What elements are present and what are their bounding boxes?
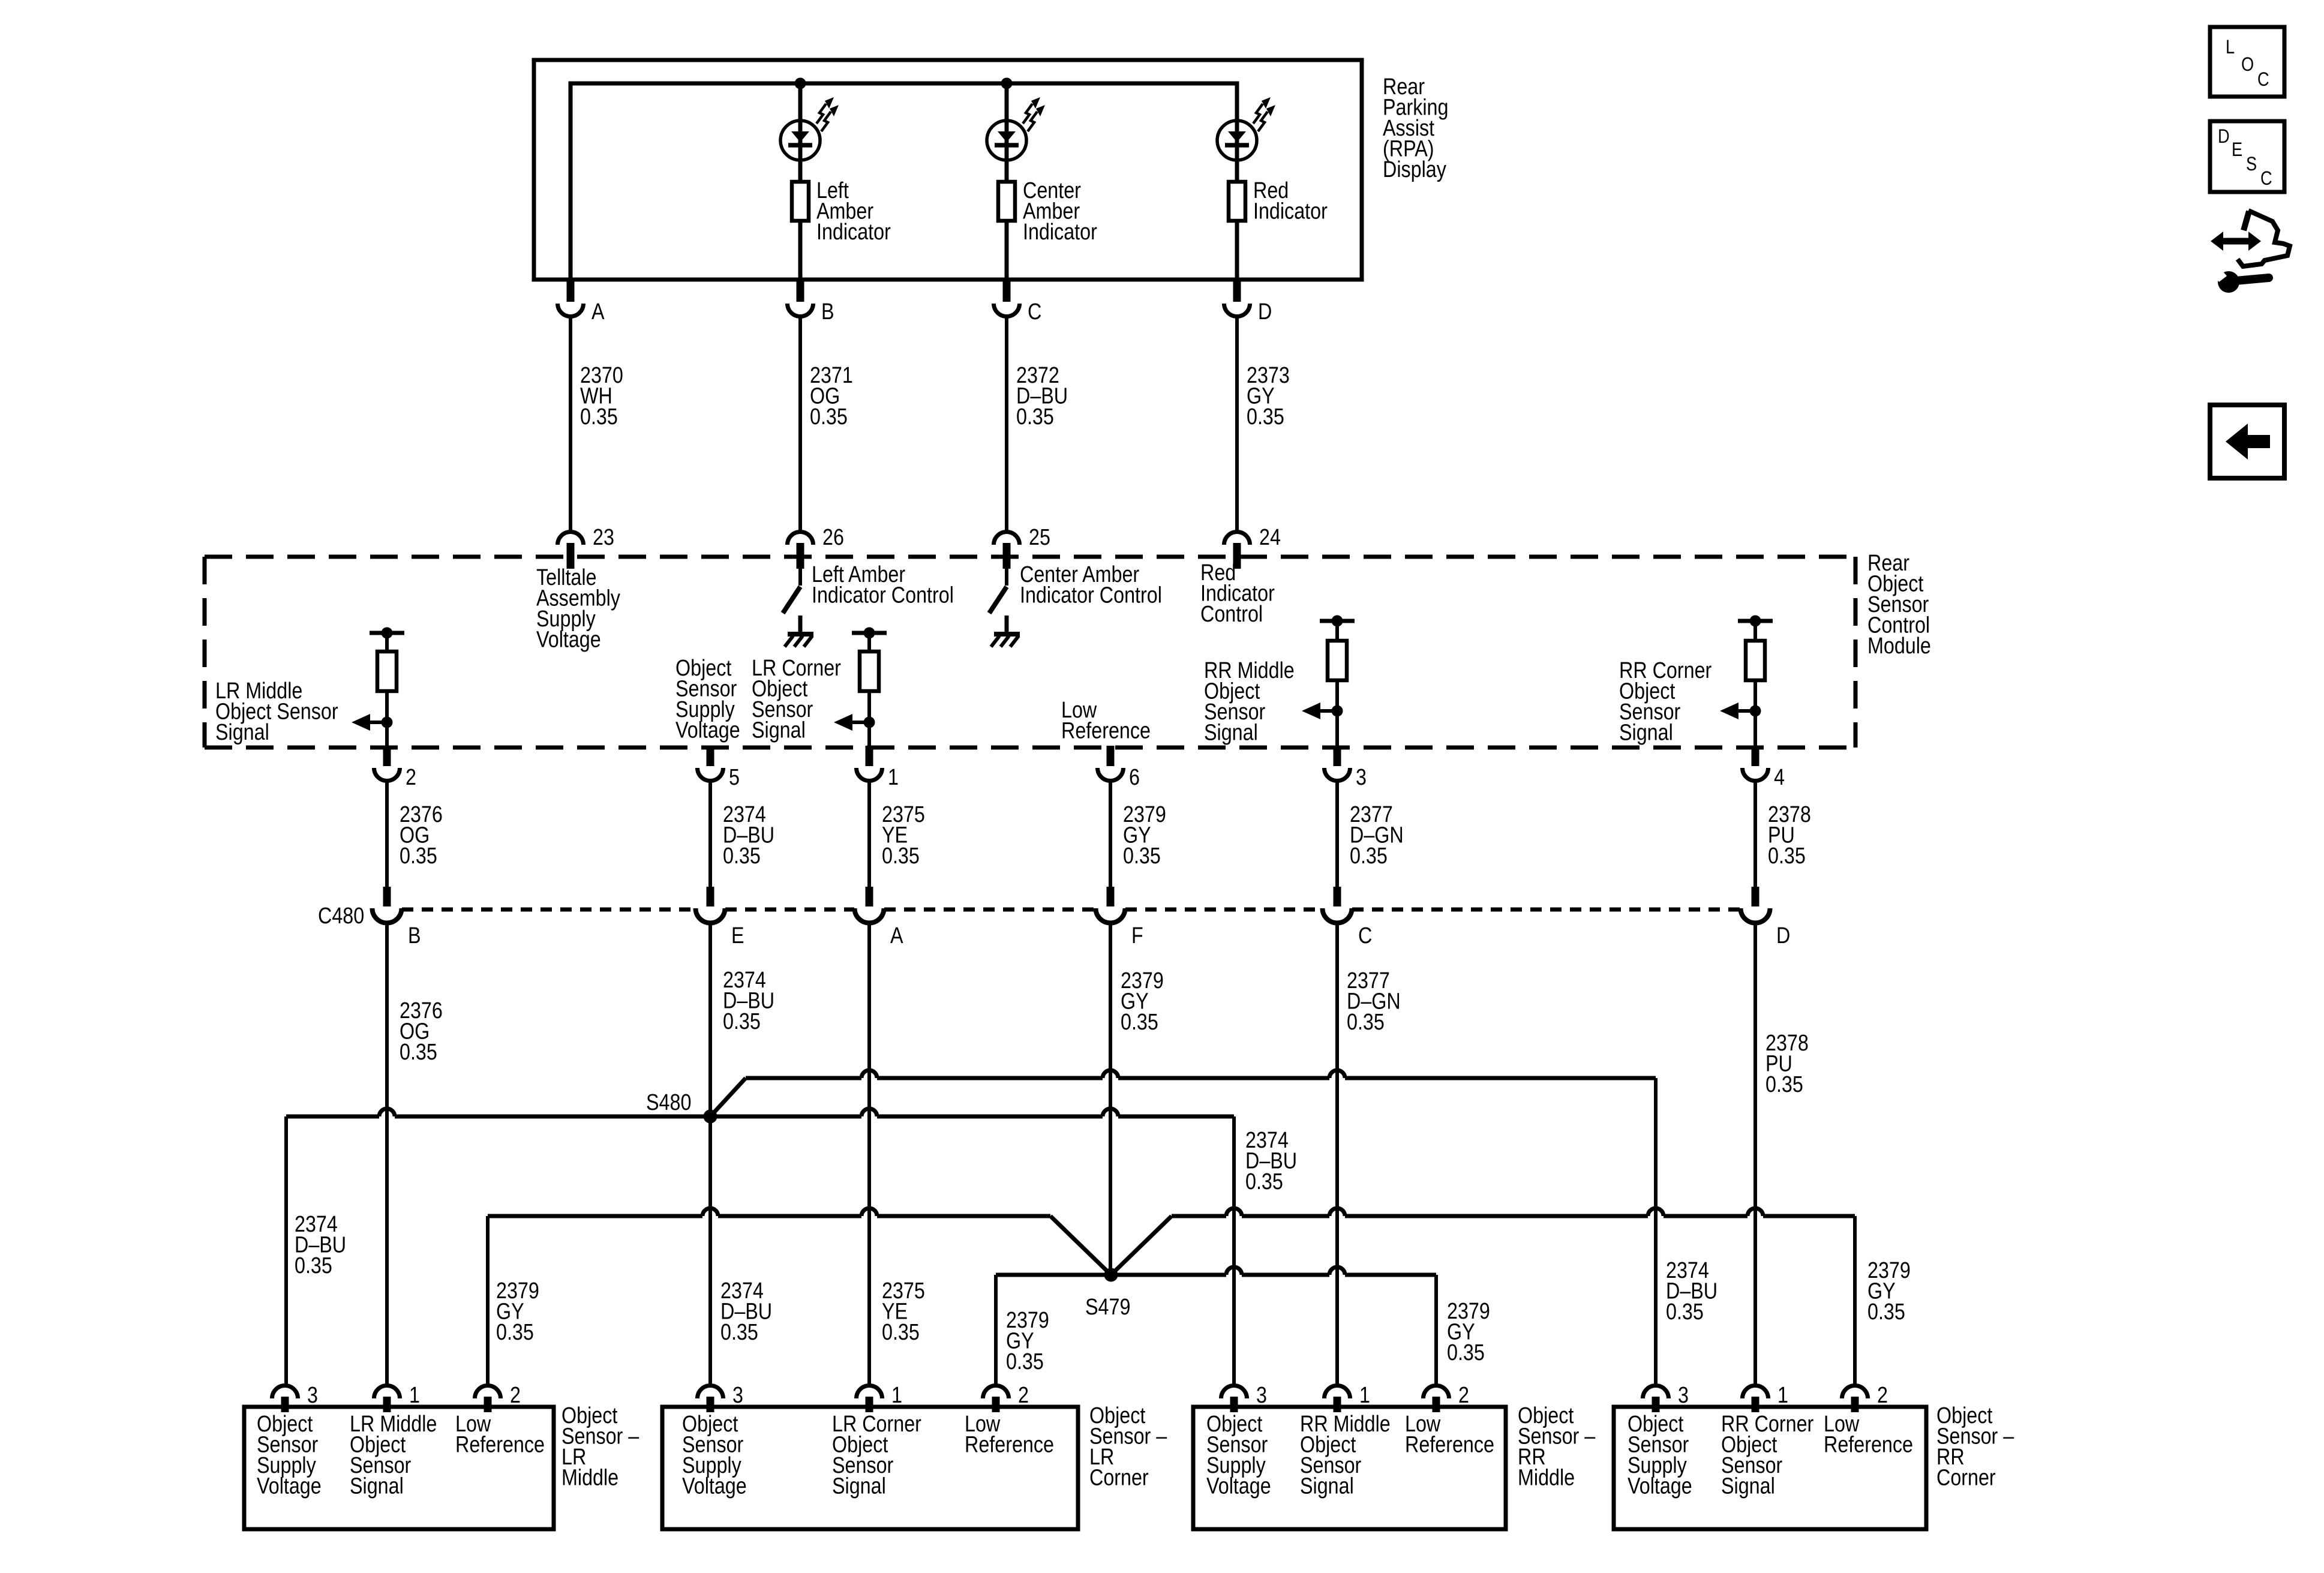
Object Sensor LR Middle box — [244, 1407, 554, 1529]
label: Red Indicator — [1253, 178, 1328, 224]
svg-text:6: 6 — [1129, 765, 1140, 790]
label: 2379 GY 0.35 (below C480 F) — [1121, 968, 1164, 1035]
svg-text:1: 1 — [888, 765, 899, 790]
wire 2374 drop to RR corner pin 3 — [1654, 1078, 1658, 1385]
wire 2374 D–BU (module to C480) — [708, 782, 712, 888]
wire 2379 low ref S479 level — [996, 1273, 1226, 1277]
Object Sensor RR Middle box — [1193, 1407, 1506, 1529]
label: LR Corner Object Sensor Signal — [752, 656, 841, 743]
svg-text:2: 2 — [406, 765, 416, 790]
connector pin D (display) — [1233, 280, 1241, 302]
svg-text:ObjectSensorSupplyVoltage: ObjectSensorSupplyVoltage — [1206, 1412, 1271, 1499]
label: 2378 PU 0.35 (lower) — [1765, 1031, 1809, 1097]
label: Rear Parking Assist (RPA) Display — [1383, 74, 1448, 182]
connector pin 2 (LR middle sensor) — [475, 1386, 501, 1399]
connector pin 1 (RR middle sensor) — [1325, 1386, 1350, 1399]
svg-text:25: 25 — [1029, 525, 1050, 550]
connector C480 pin D — [1752, 887, 1759, 906]
label: Object Sensor - LR Middle — [562, 1403, 639, 1491]
LED red indicator — [1235, 83, 1239, 123]
connector pin 1 (LR corner sensor) — [857, 1386, 882, 1399]
wire 2379 drop to LR middle pin 2 — [486, 1216, 490, 1385]
label: 2375 YE 0.35 — [882, 802, 925, 869]
wire 2379 GY (C480 F to splice S479) — [1109, 922, 1112, 1275]
label: Object Sensor - RR Corner — [1936, 1403, 2014, 1491]
svg-text:3: 3 — [1256, 1383, 1267, 1408]
wire: S479 right diagonal — [1111, 1216, 1172, 1275]
connector pin 25 (module) — [994, 532, 1020, 545]
ground (left amber control) — [798, 616, 803, 634]
svg-text:5: 5 — [729, 765, 740, 790]
svg-text:ObjectSensorSupplyVoltage: ObjectSensorSupplyVoltage — [682, 1412, 747, 1499]
svg-text:2: 2 — [510, 1383, 521, 1408]
svg-text:1: 1 — [409, 1383, 420, 1408]
svg-text:1: 1 — [891, 1383, 902, 1408]
connector pin 3 (LR middle sensor) — [272, 1386, 298, 1399]
svg-text:O: O — [2241, 54, 2254, 76]
label: Left Amber Indicator Control — [812, 562, 954, 608]
svg-text:C480: C480 — [318, 903, 364, 929]
connector pin 1 (module bottom) — [866, 746, 873, 766]
label: 2374 D–BU 0.35 — [723, 802, 774, 869]
switch center amber indicator control — [1005, 569, 1008, 586]
sensor load resistor RR corner — [1738, 619, 1773, 623]
svg-text:24: 24 — [1259, 525, 1281, 550]
wire 2376 OG (C480 B to LR middle sensor pin 1) — [385, 922, 389, 1385]
svg-text:26: 26 — [822, 525, 844, 550]
label: 2379 GY 0.35 (RR corner low ref) — [1867, 1258, 1911, 1325]
connector C480 pin A — [866, 887, 873, 906]
svg-text:B: B — [408, 923, 421, 948]
connector pin 1 (RR corner sensor) — [1743, 1386, 1768, 1399]
svg-text:C: C — [1028, 299, 1041, 325]
label: pin functions LR middle — [257, 1412, 322, 1499]
connector pin 6 (module bottom) — [1107, 746, 1115, 766]
connector C480 pin E — [707, 887, 714, 906]
sensor load resistor LR corner — [852, 631, 887, 635]
node: bus junction C — [1001, 78, 1013, 89]
label: 2379 GY 0.35 — [1123, 802, 1166, 869]
label: 2377 D–GN 0.35 — [1350, 802, 1404, 869]
svg-text:C: C — [2257, 69, 2269, 91]
wire 2374 supply bus (S480 level) — [286, 1115, 379, 1119]
label: 2377 D-GN 0.35 (lower) — [1347, 968, 1401, 1035]
svg-text:C: C — [1358, 923, 1372, 948]
label: Red Indicator Control — [1200, 560, 1275, 627]
label: 2379 GY 0.35 (LR corner low ref) — [1006, 1308, 1049, 1374]
label: pin functions RR middle — [1206, 1412, 1271, 1499]
connector pin A (display) — [567, 280, 575, 302]
wire 2374 drop to RR middle pin 3 — [1232, 1116, 1236, 1385]
connector pin 5 (module bottom) — [707, 746, 714, 766]
LED center amber indicator — [1005, 83, 1009, 123]
label: 2376 OG 0.35 (lower) — [400, 998, 443, 1065]
connector C480 pin C — [1334, 887, 1341, 906]
wire 2379 drop to RR corner pin 2 — [1853, 1216, 1857, 1385]
resistor red indicator — [1235, 160, 1239, 182]
label: 2372 D–BU 0.35 — [1016, 363, 1068, 430]
svg-text:2: 2 — [1018, 1383, 1029, 1408]
wire 2379 drop to RR middle pin 2 — [1434, 1275, 1438, 1385]
icon DESC box — [2210, 121, 2284, 192]
svg-text:4: 4 — [1774, 765, 1785, 790]
connector pin B (display) — [797, 280, 804, 302]
label: 2374 D-BU 0.35 (RR middle supply) — [1245, 1128, 1297, 1194]
label: C480 — [318, 903, 364, 929]
label: pin functions LR corner — [682, 1412, 747, 1499]
label: 2374 D-BU 0.35 (RR corner supply) — [1666, 1258, 1718, 1325]
label: 2379 GY 0.35 (RR middle low ref) — [1447, 1299, 1490, 1365]
svg-text:2: 2 — [1458, 1383, 1469, 1408]
svg-text:D: D — [1776, 923, 1790, 948]
label: Object Sensor - LR Corner — [1089, 1403, 1167, 1491]
svg-text:ObjectSensorSupplyVoltage: ObjectSensorSupplyVoltage — [675, 656, 740, 743]
connector pin 24 (module) — [1224, 532, 1250, 545]
wire 2371 OG — [798, 317, 802, 531]
label: 2370 WH 0.35 — [580, 363, 623, 430]
connector pin 2 (RR middle sensor) — [1424, 1386, 1449, 1399]
splice S480 — [704, 1110, 717, 1124]
wire 2379 low ref right branch — [1172, 1214, 1226, 1218]
svg-text:L: L — [2226, 37, 2235, 58]
connector pin C (display) — [1003, 280, 1011, 302]
label: 2374 D-BU 0.35 (below C480 E) — [723, 968, 774, 1034]
connector C480 pin B — [383, 887, 391, 906]
label: 2375 YE 0.35 (lower) — [882, 1278, 925, 1345]
label: 2379 GY 0.35 (LR middle low ref) — [496, 1278, 539, 1345]
connector C480 pin F — [1107, 887, 1115, 906]
label: S480 — [646, 1090, 691, 1115]
wire 2376 OG (module to C480) — [385, 782, 389, 888]
label: RR Corner Object Sensor Signal — [1619, 658, 1712, 746]
icon back arrow box — [2210, 405, 2284, 478]
Rear Object Sensor Control Module dashed box — [205, 555, 1855, 559]
wire 2375 YE (C480 A to LR corner sensor pin 1) — [867, 922, 871, 1385]
wire 2377 D-GN (C480 C to RR middle sensor pin 1) — [1335, 922, 1339, 1385]
connector pin 1 (LR middle sensor) — [374, 1386, 400, 1399]
svg-text:1: 1 — [1777, 1383, 1788, 1408]
label: Center Amber Indicator — [1023, 178, 1097, 245]
switch left amber indicator control — [798, 569, 802, 586]
svg-text:3: 3 — [1678, 1383, 1689, 1408]
svg-text:S480: S480 — [646, 1090, 691, 1115]
ground (center amber control) — [1005, 616, 1009, 634]
connector pin 3 (LR corner sensor) — [698, 1386, 723, 1399]
wire 2370 WH — [569, 317, 572, 531]
connector pin 3 (RR middle sensor) — [1221, 1386, 1247, 1399]
wire: S480 riser diagonal — [710, 1078, 746, 1116]
Object Sensor RR Corner box — [1614, 1407, 1926, 1529]
svg-text:2: 2 — [1877, 1383, 1888, 1408]
wire 2377 D–GN (module to C480) — [1335, 782, 1339, 888]
label: 2376 OG 0.35 — [400, 802, 443, 869]
label: pin functions RR corner — [1628, 1412, 1692, 1499]
svg-text:E: E — [731, 923, 744, 948]
resistor center amber indicator — [1005, 160, 1009, 182]
label: Low Reference (module) — [1061, 698, 1151, 744]
connector pin 4 (module bottom) — [1752, 746, 1759, 766]
label: Object Sensor Supply Voltage (module) — [675, 656, 740, 743]
label: Telltale Assembly Supply Voltage — [536, 565, 620, 653]
wire 2379 GY (module to C480) — [1109, 782, 1112, 888]
wire 2374 supply upper branch — [746, 1076, 861, 1080]
label: 2374 D-BU 0.35 (above LR corner pin 3) — [720, 1278, 772, 1345]
svg-text:3: 3 — [307, 1383, 318, 1408]
svg-text:1: 1 — [1359, 1383, 1370, 1408]
svg-text:A: A — [591, 299, 605, 325]
wire 2374 drop to LR middle pin 3 — [284, 1116, 288, 1385]
svg-text:D: D — [1258, 299, 1272, 325]
wire: S479 left diagonal — [1050, 1216, 1111, 1275]
wire 2375 YE (module to C480) — [867, 782, 871, 888]
connector C480 dotted line — [402, 908, 695, 912]
label: 2371 OG 0.35 — [810, 363, 853, 430]
wire: display supply bus — [571, 83, 1237, 280]
wire 2374 D-BU (C480 E to splice S480) — [708, 922, 712, 1385]
svg-text:3: 3 — [1356, 765, 1367, 790]
LED left amber indicator — [798, 83, 803, 123]
svg-text:3: 3 — [732, 1383, 743, 1408]
svg-text:E: E — [2232, 139, 2242, 161]
label: S479 — [1085, 1295, 1130, 1320]
wire 2372 D–BU — [1005, 317, 1008, 531]
label: RR Middle Object Sensor Signal — [1204, 658, 1295, 746]
wire 2378 PU (module to C480) — [1753, 782, 1757, 888]
svg-text:S479: S479 — [1085, 1295, 1130, 1320]
connector pin 23 (module) — [558, 532, 584, 545]
wire 2378 PU (C480 D to RR corner sensor pin 1) — [1753, 922, 1757, 1385]
RPA display box — [534, 60, 1362, 280]
label: 2374 D-BU 0.35 (LR middle supply) — [295, 1212, 346, 1278]
label: Center Amber Indicator Control — [1020, 562, 1162, 608]
svg-text:A: A — [890, 923, 903, 948]
label: Left Amber Indicator — [816, 178, 891, 245]
connector pin 2 (RR corner sensor) — [1842, 1386, 1868, 1399]
svg-text:ObjectSensorSupplyVoltage: ObjectSensorSupplyVoltage — [257, 1412, 322, 1499]
wire 2379 drop to LR corner pin 2 — [994, 1275, 998, 1385]
svg-text:F: F — [1131, 923, 1143, 948]
svg-text:23: 23 — [593, 525, 614, 550]
resistor left amber indicator — [798, 160, 803, 182]
connector pin 2 (module bottom) — [383, 746, 391, 766]
connector pin 3 (module bottom) — [1334, 746, 1341, 766]
label: 2378 PU 0.35 — [1768, 802, 1811, 869]
label: LR Middle Object Sensor Signal — [215, 679, 338, 745]
sensor load resistor RR middle — [1320, 619, 1355, 623]
label: 2373 GY 0.35 — [1247, 363, 1290, 430]
Object Sensor LR Corner box — [662, 1407, 1078, 1529]
svg-text:S: S — [2246, 154, 2257, 175]
splice S479 — [1104, 1268, 1118, 1282]
node: bus junction B — [795, 78, 806, 89]
label: Object Sensor - RR Middle — [1518, 1403, 1596, 1491]
connector pin 26 (module) — [788, 532, 813, 545]
connector pin 2 (LR corner sensor) — [983, 1386, 1009, 1399]
wire 2373 GY — [1235, 317, 1239, 531]
connector pin 3 (RR corner sensor) — [1643, 1386, 1669, 1398]
sensor load resistor LR middle — [370, 631, 404, 635]
label: Rear Object Sensor Control Module — [1867, 551, 1931, 659]
svg-text:ObjectSensorSupplyVoltage: ObjectSensorSupplyVoltage — [1628, 1412, 1692, 1499]
wire 2379 low ref left branch — [488, 1214, 702, 1218]
svg-text:B: B — [821, 299, 834, 325]
svg-text:D: D — [2218, 126, 2230, 148]
svg-text:C: C — [2260, 168, 2272, 190]
icon LOC box — [2210, 27, 2284, 97]
icon wiring repair (arrow and wrench) — [2221, 238, 2251, 245]
